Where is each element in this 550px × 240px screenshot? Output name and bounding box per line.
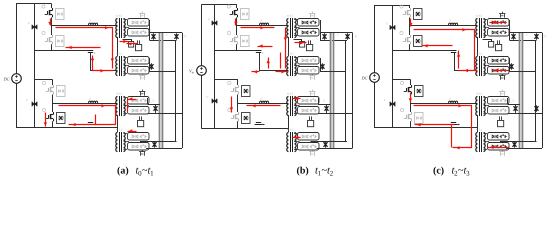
red current path [50,19,52,26]
SR loop T3-1 [488,97,510,105]
diode Do1 [513,33,515,39]
wire: cell1 return rail [392,50,456,52]
output bus bars [330,33,332,148]
svg-text:n:1:1: n:1:1 [476,92,483,96]
mosfet Q4 [228,108,231,111]
red current path [235,19,237,26]
snubber D2/C2 [414,36,423,47]
diode Do5 [325,141,327,147]
clamp box T1/T2 [489,42,494,48]
capacitor Cr2 [88,122,93,124]
diode Do2 [347,33,349,39]
wire: input capacitor rail [34,4,36,128]
wire: output right rail [182,33,184,148]
wire: T1 secondary taps [294,19,298,21]
mosfet Q2 [227,31,230,34]
diode Do2 [176,33,178,39]
wire: Q2 drain [409,26,411,36]
mosfet Q1 [42,5,45,8]
wire: Cr1 to T2 primary [455,53,478,71]
mosfet Q4 [42,108,45,111]
capacitor Cb1 [212,21,217,26]
SR mosfet T2 [310,76,312,80]
wire: cell1 lower tap [320,58,322,72]
wire: top rail [201,4,237,6]
snubber D3/C3 [242,86,251,97]
wire: Q4 source to bottom rail [237,121,239,128]
SR loop T3-2 [298,107,320,115]
wire: cell2 top rail [34,79,52,81]
wire: T4 secondary taps [294,133,298,135]
svg-text:L: L [89,97,92,101]
svg-text:C: C [166,34,168,37]
transformer T1 [287,19,289,38]
wire: Q1 drain branch [236,5,238,9]
wire: left input rail [374,5,376,73]
wire: cell2 rectifier top [507,98,509,104]
SR loop T1-2 [128,29,150,37]
SR mosfet T1 [140,14,142,18]
wire: cell1 return rail [34,50,93,52]
capacitor Cb2 [390,102,395,107]
wire: output right rail [352,33,354,148]
wire: Cr1 to T2 primary [91,53,118,71]
SR loop T2-2 [128,67,150,75]
wire: cell2 rectifier top [318,98,320,104]
diode Do4 [515,105,517,111]
red current path [410,19,412,27]
snubber D3/C3 [57,86,66,97]
snubber D1/C1 [241,9,250,20]
svg-text:L: L [89,19,92,23]
diode Do2 [536,33,538,39]
SR mosfet T3 [140,92,142,96]
SR mosfet T1 [500,14,502,18]
svg-text:C: C [153,100,155,103]
snubber D4/C4 [242,113,251,124]
gate-drive box T1/T2 [136,45,142,51]
snubber D2/C2 [56,36,65,47]
svg-text:n:1:1: n:1:1 [287,52,294,56]
SR loop T1-1 [128,19,150,27]
transformer T3 [287,97,289,116]
capacitor Cr1 [88,50,93,52]
wire: Q3 drain branch [237,80,239,86]
wire: input capacitor rail [214,5,216,129]
SR mosfet T2 [140,76,142,80]
mosfet Q3 [228,81,231,84]
wire: cell2 return [255,124,265,126]
snubber D3/C3 [415,86,424,97]
wire: cell1 return rail [215,50,262,52]
svg-text:DC: DC [3,76,10,81]
SR loop T4-2 [488,143,510,151]
capacitor Cr1 [256,50,261,52]
wire: T3-T4 primary link [477,115,479,132]
transformer T2 [116,57,118,76]
svg-text:n:1:1: n:1:1 [116,128,123,132]
SR loop T4-1 [298,133,320,141]
wire: cell1 lower tap [149,58,151,72]
wire: T2 secondary taps [484,57,488,59]
wire: output mid rail [175,40,177,141]
SR loop T3-1 [128,97,150,105]
wire: half-bridge midnode to transformer [52,18,118,26]
svg-text:L: L [449,97,452,101]
capacitor Cb1 [32,25,37,30]
svg-text:L: L [260,19,263,23]
wire: cell1 rectifier bus [509,20,511,40]
wire: cell2 rectifier bottom [500,141,537,143]
wire: half-bridge midnode to transformer [237,18,289,26]
svg-text:n:1:1: n:1:1 [476,14,483,18]
wire: Q4 source to bottom rail [52,121,54,127]
diode Do4 [326,105,328,111]
wire: bottom rail [16,127,118,129]
gate-drive box T3/T4 [308,121,314,127]
wire: T1 lower clamp jog [483,40,492,42]
wire: left input rail [16,4,18,75]
wire: T4 secondary taps [484,133,488,135]
transformer T1 [116,19,118,38]
capacitor Cr2 [451,122,456,124]
SR loop T1-2 [298,29,320,37]
svg-text:C: C [337,34,339,37]
wire: cell1 rectifier bus [320,20,322,40]
SR loop T2-1 [298,57,320,65]
wire: T3 secondary taps [294,97,298,99]
wire: T3-T4 primary link [117,115,119,132]
wire: T3 secondary taps [484,97,488,99]
wire: Q3 drain branch [410,80,412,86]
wire: T1-T2 primary link [288,37,290,56]
wire: cell2 return [450,124,460,126]
wire: cell2 top rail [215,79,238,81]
DC source c [370,73,380,83]
wire: cell2 rectifier bottom [140,141,177,143]
wire: Q2 source to mid rail [409,44,411,50]
transformer T2 [476,57,478,76]
wire: T3 secondary taps [124,97,128,99]
wire: cell2 midnode to transformer [53,95,118,104]
wire: T1 lower clamp jog [294,40,302,42]
SR loop T2-2 [298,67,320,75]
wire: Q2 drain [51,26,53,36]
wire: cell2 rectifier bottom [311,141,348,143]
svg-text:n:1:1: n:1:1 [116,14,123,18]
wire: T1 lower clamp jog [123,40,132,42]
wire: cell1 lower tap [509,58,511,72]
svg-text:n:1:1: n:1:1 [476,52,483,56]
wire: Q4 source to bottom rail [410,121,412,127]
svg-text:L: L [449,19,452,23]
svg-text:DC: DC [361,75,368,80]
SR loop T3-2 [128,107,150,115]
snubber D1/C1 [414,9,423,20]
diode Do1 [153,33,155,39]
SR mosfet T3 [310,92,312,96]
diode Do5 [514,141,516,147]
wire: Q1 drain branch [51,4,53,9]
transformer T3 [116,97,118,116]
diode Do1 [324,33,326,39]
SR loop T2-1 [128,57,150,65]
svg-text:(b): (b) [297,166,309,177]
SR loop T4-2 [128,143,150,151]
wire: Q4 drain [410,104,412,113]
wire: cell2 midnode to transformer [238,95,289,104]
diode Do6 [536,105,538,111]
capacitor Cr2 [256,122,261,124]
svg-text:C: C [150,29,152,32]
wire: cell2 mid tap [148,113,183,115]
SR loop T4-2 [298,143,320,151]
wire: T1 secondary taps [124,19,128,21]
wire: T2 secondary taps [294,57,298,59]
transformer T4 [476,133,478,152]
svg-text:n:1:1: n:1:1 [116,92,123,96]
wire: cell1 rectifier bus [149,20,151,40]
transformer T4 [116,133,118,152]
SR loop T1-2 [488,29,510,37]
svg-text:n:1:1: n:1:1 [287,92,294,96]
wire: T1 secondary taps [484,19,488,21]
diode Do5 [154,141,156,147]
wire: Cr1 to T2 primary [260,53,289,71]
wire: cell2 top rail [392,79,410,81]
inductor Lk1 [260,23,269,25]
gate-drive box T3/T4 [138,121,144,127]
svg-text:C: C [526,34,528,37]
svg-text:n:1:1: n:1:1 [287,14,294,18]
svg-text:L: L [260,97,263,101]
mosfet Q2 [400,31,403,34]
SR loop T3-2 [488,107,510,115]
inductor Lk2 [449,101,458,103]
svg-text:C: C [513,100,515,103]
wire: Q4 drain [237,104,239,113]
mosfet Q3 [400,81,403,84]
output bus bars [159,33,161,148]
mosfet Q3 [42,81,45,84]
wire: T3-T4 primary link [288,115,290,132]
SR loop T3-1 [298,97,320,105]
wire: half-bridge midnode to transformer [410,18,478,26]
snubber D2/C2 [241,36,250,47]
DC source b [197,66,207,76]
wire: top rail [374,5,410,7]
wire: Q3 drain branch [52,80,54,86]
diode Do3 [151,63,153,69]
wire: cell2 mid tap [508,113,543,115]
wire: Q1 drain branch [409,5,411,8]
wire: T1-T2 primary link [117,37,119,56]
wire: bottom rail [201,128,288,130]
wire: cell2 rectifier top [147,98,149,104]
mosfet Q1 [227,5,230,8]
svg-text:n:1:1: n:1:1 [116,52,123,56]
SR loop T2-1 [488,57,510,65]
wire: left input rail [201,5,203,67]
SR loop T2-2 [488,67,510,75]
wire: output mid rail [345,40,347,141]
wire: output right rail [542,33,544,148]
SR loop T1-1 [298,19,320,27]
snubber D4/C4 [415,113,424,124]
inductor Lk2 [260,101,269,103]
SR loop T4-1 [488,133,510,141]
DC source a [12,74,22,84]
diode Do3 [511,63,513,69]
transformer T2 [287,57,289,76]
snubber D4/C4 [57,113,66,124]
wire: Q2 source to mid rail [51,44,53,50]
mosfet Q2 [42,31,45,34]
svg-text:C: C [320,29,322,32]
SR mosfet T3 [500,92,502,96]
wire: T1-T2 primary link [477,37,479,56]
gate-drive box T3/T4 [498,121,504,127]
wire: bottom rail [374,127,478,129]
capacitor Cb2 [32,102,37,107]
clamp box T1/T2 [300,42,305,48]
svg-text:C: C [323,100,325,103]
SR mosfet T4 [310,152,312,156]
wire: cell2 mid tap [318,113,353,115]
svg-text:(a): (a) [117,166,129,177]
capacitor Cb2 [212,99,217,104]
snubber D1/C1 [56,9,65,20]
gate-drive box T1/T2 [496,45,502,51]
diode Do3 [322,63,324,69]
transformer T1 [476,19,478,38]
wire: cell2 return [86,124,96,126]
gate-drive box T1/T2 [307,45,313,51]
transformer T3 [476,97,478,116]
SR mosfet T4 [140,152,142,156]
wire: cell2 midnode to transformer [411,95,478,104]
wire: top rail [16,3,52,5]
wire: Q2 drain [236,26,238,36]
wire: output mid rail [535,40,537,141]
wire: Q4 drain [52,104,54,113]
SR loop T4-1 [128,133,150,141]
output bus bars [519,33,521,148]
wire: T4 secondary taps [124,133,128,135]
wire: Q2 source to mid rail [236,44,238,50]
svg-text:(c): (c) [433,166,444,177]
mosfet Q4 [400,108,403,111]
svg-text:C: C [510,29,512,32]
capacitor Cr1 [451,50,456,52]
capacitor Cb1 [390,25,395,30]
SR mosfet T1 [310,14,312,18]
transformer T4 [287,133,289,152]
svg-text:n:1:1: n:1:1 [476,128,483,132]
svg-text:n:1:1: n:1:1 [287,128,294,132]
inductor Lk1 [89,23,98,25]
SR mosfet T2 [500,76,502,80]
SR mosfet T4 [500,152,502,156]
wire: T2 secondary taps [124,57,128,59]
clamp box T1/T2 [129,42,134,48]
inductor Lk1 [449,23,458,25]
mosfet Q1 [400,5,403,8]
inductor Lk2 [89,101,98,103]
diode Do4 [155,105,157,111]
SR loop T1-1 [488,19,510,27]
wire: input capacitor rail [392,5,394,128]
